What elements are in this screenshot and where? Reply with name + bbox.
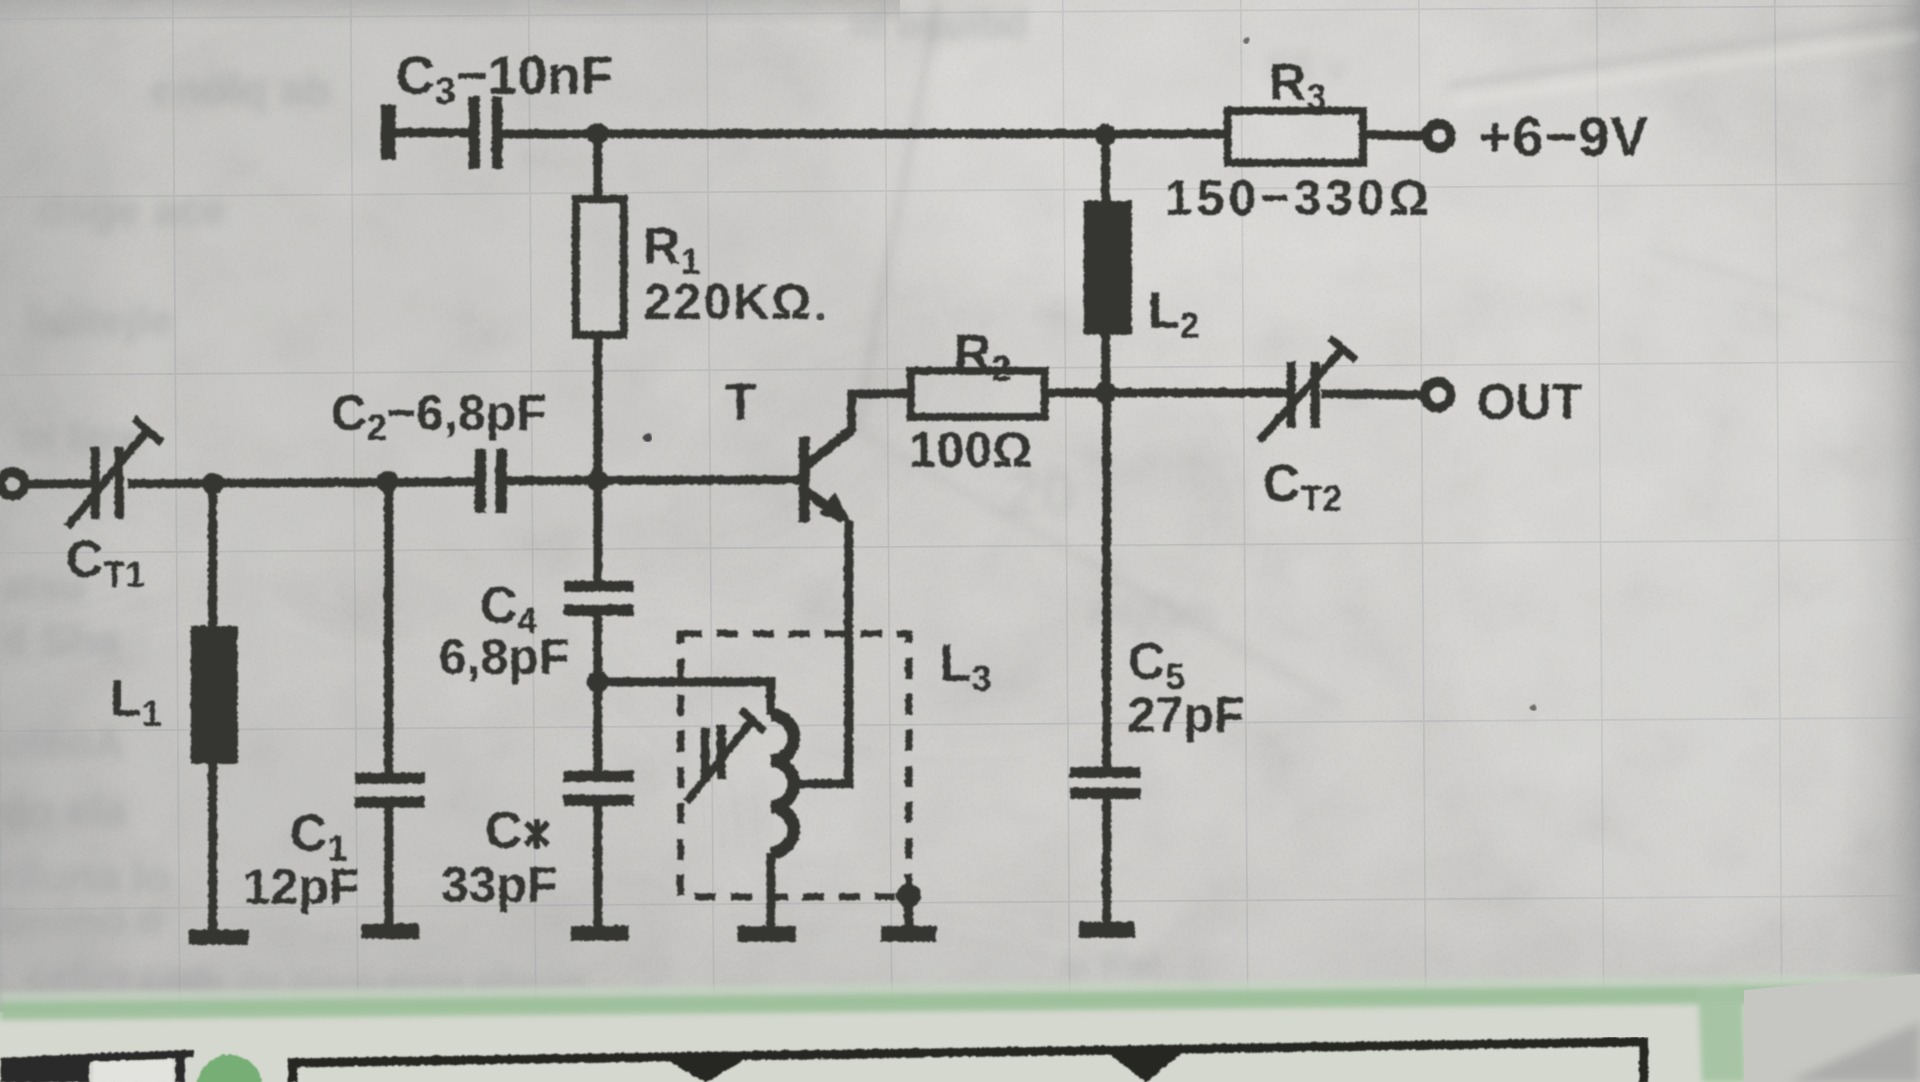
wire C3 stub to plates [392, 128, 470, 137]
wire C5 top [1102, 392, 1111, 767]
node OUT terminal [1424, 381, 1450, 407]
speck above L2 [1243, 37, 1250, 44]
wire top rail [502, 129, 1227, 138]
inductor L1 [190, 625, 237, 763]
svg-text:+6−9V: +6−9V [1478, 104, 1648, 167]
svg-text:licitejle: licitejle [25, 296, 174, 345]
wire collector up [851, 393, 910, 432]
green rule [0, 984, 1920, 1020]
wire C2 to transistor base [506, 479, 799, 480]
svg-text:id bsuibd: id bsuibd [850, 3, 1028, 47]
photo triangle marker 1 [662, 1056, 748, 1082]
speck near 220K label [816, 312, 824, 320]
svg-text:dsge ace: dsge ace [38, 186, 226, 235]
svg-text:bnimo o: bnimo o [0, 897, 163, 944]
svg-text:C: C [484, 801, 522, 859]
svg-text:100Ω: 100Ω [908, 421, 1032, 477]
ground C1 [361, 923, 418, 938]
node junction out rail [1094, 381, 1116, 403]
svg-text:if Sha: if Sha [0, 616, 120, 665]
capacitor C1 plates [354, 772, 424, 807]
ground C5 [1078, 921, 1134, 937]
node junction top R1 [586, 122, 608, 144]
speck right mid [1530, 704, 1537, 711]
capacitor CT2 arrow [1258, 337, 1355, 440]
transistor T emitter arrowhead [818, 491, 851, 523]
capacitor L3 trimmer arrow [686, 709, 764, 801]
wire C1 bottom [384, 807, 393, 924]
paper creases [856, 0, 1920, 705]
wire emitter down [794, 520, 848, 783]
resistor R1 [575, 198, 623, 334]
transistor T emitter stroke [806, 491, 843, 518]
corner paper right of green border [1744, 974, 1920, 1082]
capacitor C3 left stub [380, 104, 395, 159]
wire tank feed [597, 681, 770, 714]
svg-text:T: T [724, 373, 756, 431]
wire input to CT1 [24, 479, 95, 488]
svg-text:OUT: OUT [1476, 373, 1582, 429]
svg-text:enolq ab: enolq ab [150, 66, 331, 115]
capacitor CT1 arrow [67, 418, 161, 526]
wire CT1 to C2 [127, 481, 476, 483]
green rule light upper [0, 974, 1920, 1082]
wire shield ground [904, 895, 913, 926]
svg-text:riluna lo: riluna lo [0, 853, 171, 902]
capacitor CT1 plates [90, 446, 123, 518]
ground shield [880, 925, 936, 941]
capacitor C2 plates [474, 448, 506, 512]
svg-text:C3−10nF: C3−10nF [395, 45, 613, 112]
capacitor C5 plates [1069, 766, 1140, 798]
node junction C1 [376, 470, 398, 492]
node junction L1 [201, 472, 223, 494]
photo triangle marker 2 [1105, 1049, 1185, 1082]
wire L2 top [1101, 134, 1110, 200]
svg-text:C2−6,8pF: C2−6,8pF [330, 384, 546, 447]
wire L2 bottom [1101, 334, 1110, 392]
bleed-through ghost text [0, 3, 1348, 999]
shield box L3 dashed [680, 633, 908, 896]
node junction R1/C4 [586, 469, 608, 491]
label Cstar asterisk [525, 818, 547, 848]
capacitor CT2 plates [1286, 361, 1319, 427]
wire coil bottom [766, 852, 775, 926]
resistor R3 [1227, 110, 1362, 162]
wire C4 top [593, 480, 602, 580]
wire L1 top [208, 483, 217, 625]
svg-text:6,8pF: 6,8pF [438, 628, 569, 684]
ground Cstar [570, 925, 628, 940]
transistor T collector stroke [806, 429, 851, 464]
greenish strip below rule [0, 994, 1920, 1082]
inductor L2 [1083, 200, 1131, 334]
speck left of T [643, 433, 652, 442]
bottom right page shadow [1788, 1022, 1920, 1082]
capacitor Cstar plates [563, 770, 633, 805]
ground L1 [188, 929, 248, 944]
svg-text:oteoA: oteoA [0, 719, 125, 768]
node junction shield ground [896, 883, 920, 907]
resistor R2 [910, 370, 1044, 416]
node junction top L2 [1094, 123, 1116, 145]
node input terminal [0, 471, 24, 495]
node +6-9V terminal [1426, 123, 1450, 147]
transistor Q T base bar [798, 436, 809, 522]
svg-text:27pF: 27pF [1127, 686, 1244, 742]
photo small box outline [89, 1049, 193, 1061]
capacitor C3 plates [468, 96, 502, 168]
photo green dot [196, 1054, 262, 1082]
svg-text:220KΩ: 220KΩ [643, 273, 813, 329]
photo small box divider [175, 1052, 184, 1082]
capacitor C4 plates [563, 580, 633, 615]
ground L3 coil [737, 925, 795, 941]
wire C5 bottom [1102, 798, 1111, 922]
wire junction to CT2 [1105, 388, 1288, 397]
wire R3 to +V terminal [1362, 134, 1424, 135]
svg-text:33pF: 33pF [440, 856, 557, 912]
photo small box interior [92, 1059, 172, 1082]
wire C1 top [384, 481, 393, 772]
wire R1 bottom [593, 334, 602, 480]
wire R2 to junction [1044, 388, 1105, 397]
capacitor L3 trimmer plates [700, 724, 725, 781]
wire C4 to Cstar [593, 615, 602, 770]
wire Cstar bottom [593, 805, 602, 926]
photo black bar bottom left [0, 1053, 89, 1082]
svg-text:12pF: 12pF [242, 858, 359, 914]
node junction tank feed [586, 670, 608, 692]
wire L1 bottom [208, 763, 217, 930]
inductor L3 coil [770, 714, 793, 852]
svg-text:si 9bd: si 9bd [1060, 945, 1158, 983]
svg-text:do ela: do ela [0, 786, 128, 835]
green vertical border [1698, 984, 1746, 1082]
wire R1 top [593, 133, 602, 198]
photo large box outline [292, 1041, 1643, 1082]
wire CT2 to OUT [1321, 393, 1423, 394]
svg-text:150−330Ω: 150−330Ω [1164, 169, 1432, 225]
